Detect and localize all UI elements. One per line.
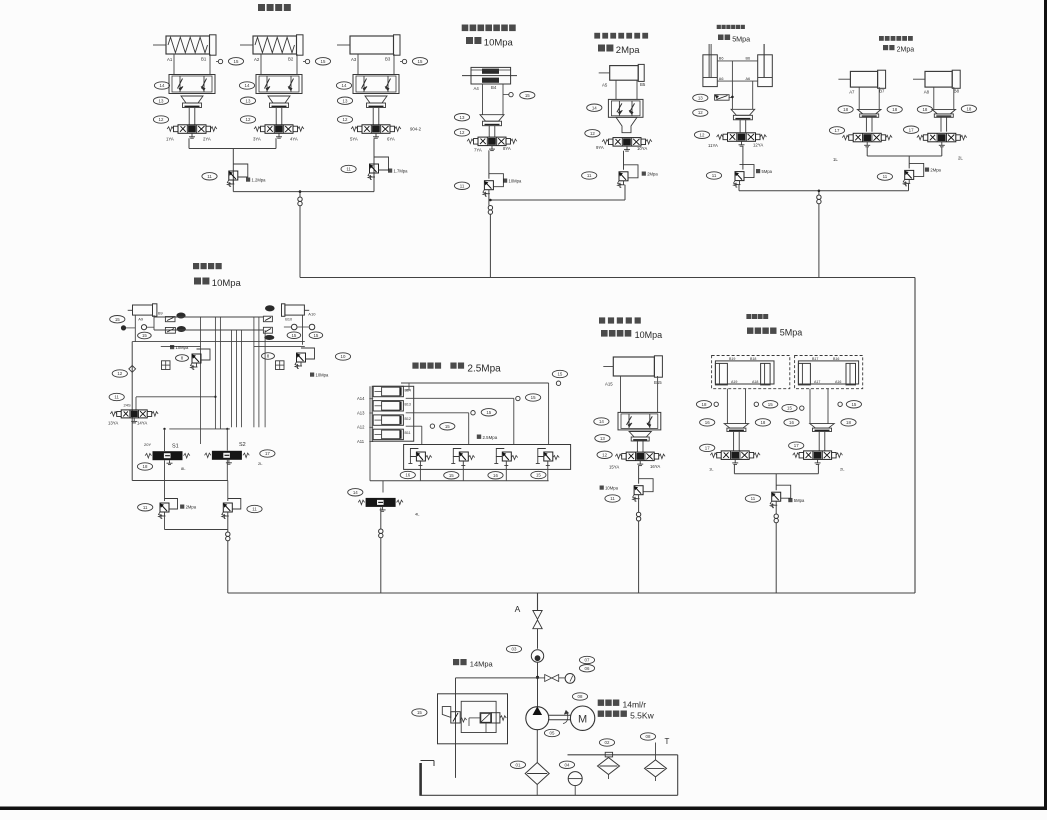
label module2 relief pressure [503, 179, 507, 183]
wire reducing valve 2 to bus [462, 466, 464, 481]
svg-text:12: 12 [159, 117, 164, 122]
balloon 11 module4 [706, 172, 721, 179]
wire S2 to bottom bus [226, 460, 228, 481]
balloon 11 at R1 [202, 173, 217, 180]
balloon point pp2 b [838, 402, 842, 406]
svg-text:11: 11 [751, 496, 756, 501]
svg-text:A19: A19 [731, 380, 737, 384]
cylinder A10 [282, 304, 285, 317]
wire A7 down [858, 87, 860, 109]
wire swing outlet link [164, 516, 166, 530]
relief valve swing bottom left 2Mpa [160, 503, 169, 512]
title platform lift cylinders [717, 25, 721, 29]
svg-text:7YA: 7YA [474, 147, 482, 152]
cylinder A14 [373, 386, 403, 396]
pilot relief right valve [480, 713, 491, 723]
wire valve1 down [188, 138, 190, 148]
balloon 15 pp1 [763, 401, 778, 408]
wire thrust bottom bus [370, 480, 549, 482]
svg-text:10Mpa: 10Mpa [605, 486, 618, 491]
wire module4 valve down [742, 146, 744, 170]
balloon 15 B13 [526, 394, 541, 401]
funnel manifold module4 [731, 109, 755, 115]
svg-text:03: 03 [512, 647, 517, 652]
balloon 11 module5 [877, 173, 892, 180]
svg-text:11: 11 [207, 174, 212, 179]
wire check valve to junction [537, 662, 539, 706]
svg-text:18: 18 [143, 464, 148, 469]
label module5 relief pressure [925, 168, 929, 172]
svg-text:2Mpa: 2Mpa [647, 172, 658, 177]
balloon 11 at R2 [341, 165, 356, 172]
wire A15 down [620, 376, 622, 412]
return header [568, 754, 678, 756]
svg-text:1.2Mpa: 1.2Mpa [252, 178, 267, 183]
svg-text:02: 02 [605, 740, 610, 745]
svg-text:2.5Mpa: 2.5Mpa [467, 364, 501, 375]
wire A10 stub a [284, 326, 292, 328]
svg-text:A9: A9 [138, 317, 144, 322]
balloon 15 pp2 b [846, 401, 861, 408]
balloon point B14 [556, 381, 560, 385]
balloon 12 module3 [585, 130, 600, 137]
wire S1 to bottom bus [164, 460, 166, 480]
wire B8 down [953, 87, 955, 109]
svg-text:A7: A7 [849, 90, 855, 95]
wire module5 drop to relief [908, 156, 910, 168]
balloon 12 module2 [454, 129, 469, 136]
relief valve R1 1.2Mpa [229, 171, 238, 180]
funnel manifold 2 [268, 96, 290, 103]
svg-text:9YA: 9YA [596, 145, 604, 150]
wire swing left edge [131, 342, 133, 481]
svg-text:1.7Mpa: 1.7Mpa [394, 169, 409, 174]
wire crossbar top module4 [717, 60, 757, 62]
svg-text:1L: 1L [833, 157, 838, 162]
svg-text:18: 18 [846, 420, 851, 425]
balloon 15 at A10 a [287, 332, 301, 339]
wire A9 vertical b [153, 315, 155, 330]
svg-text:2L: 2L [258, 461, 263, 466]
wire pp drop to relief [775, 474, 777, 491]
svg-text:16: 16 [705, 420, 710, 425]
svg-text:B16: B16 [833, 357, 839, 361]
wire down to relief valve R1 [232, 149, 234, 192]
wire 13YA feed [135, 397, 137, 410]
svg-text:A17: A17 [814, 380, 820, 384]
svg-text:3YA: 3YA [253, 137, 261, 142]
wire main pressure bus upper [300, 277, 915, 279]
balloon point circle near B3 [402, 59, 406, 63]
cylinder pipe pulling 2 [798, 361, 858, 384]
wire B15 down [657, 376, 659, 412]
balloon 03 check valve [506, 645, 521, 652]
svg-text:20Y: 20Y [144, 442, 151, 447]
svg-text:16YA: 16YA [650, 464, 660, 469]
tank left wall [419, 763, 422, 796]
svg-text:10Mpa: 10Mpa [212, 278, 242, 289]
air breather riser [655, 743, 657, 760]
svg-text:11: 11 [143, 505, 148, 510]
svg-text:B3: B3 [385, 57, 391, 62]
svg-text:13: 13 [698, 96, 703, 101]
wire platform coupling to bus [818, 204, 820, 278]
wire drop to main bus module1 [299, 191, 301, 197]
balloon point circle A9 [121, 325, 126, 330]
svg-text:8L: 8L [181, 466, 186, 471]
cylinder A5 [610, 66, 639, 81]
wire thrust left edge [369, 386, 371, 480]
svg-text:16: 16 [405, 473, 410, 478]
balloon 08 air breather [640, 733, 655, 740]
balloon 18b pp1 [755, 419, 770, 426]
balloon 18 c [917, 106, 932, 113]
suction filter [525, 763, 549, 785]
relief valve swing right 10Mpa [297, 353, 306, 362]
svg-text:A6: A6 [746, 77, 751, 81]
svg-text:15: 15 [557, 372, 562, 377]
balloon 11 module3 [582, 172, 597, 179]
cylinder A9 [133, 305, 153, 315]
balloon point circle near B2 [305, 59, 309, 63]
svg-text:12: 12 [698, 110, 703, 115]
wire module5 joining bus [867, 155, 942, 157]
svg-text:15: 15 [787, 406, 792, 411]
wire junction to gauge valve [538, 677, 545, 679]
wire reducing valve 1 to bus [419, 466, 421, 481]
wire stem module2 [488, 126, 490, 137]
pump shaft [548, 714, 571, 716]
svg-text:15: 15 [417, 710, 422, 715]
svg-text:2Mpa: 2Mpa [930, 168, 941, 173]
svg-text:18: 18 [892, 107, 897, 112]
wire thrust valve down [380, 508, 382, 530]
svg-text:15: 15 [115, 317, 120, 322]
label rear support relief pressure [600, 486, 604, 490]
return filter [598, 758, 620, 775]
reducing valve thrust 1 [416, 452, 425, 461]
cylinder A4 double rod [471, 67, 511, 84]
wire shutoff to check valve [537, 629, 539, 649]
svg-text:15: 15 [768, 402, 773, 407]
wire stem A8 [940, 117, 942, 131]
balloon at A9-1 [176, 313, 185, 319]
solenoid valve 7YA/8YA [478, 137, 506, 146]
pilot square swing right [276, 361, 285, 370]
svg-text:18: 18 [966, 106, 971, 111]
svg-text:17: 17 [909, 127, 914, 132]
svg-text:2L: 2L [958, 156, 963, 161]
wire B7 down [878, 87, 880, 109]
check valve pair module3 [608, 99, 643, 117]
balloon 18 pp1 [696, 401, 711, 408]
svg-text:12: 12 [460, 130, 465, 135]
svg-text:A: A [515, 604, 521, 614]
wire B11 run [406, 425, 422, 427]
svg-text:07: 07 [585, 658, 590, 663]
balloon point B11 [430, 424, 434, 428]
title rear support working pressure 10Mpa [601, 330, 608, 337]
balloon point circle near B1 [218, 59, 222, 63]
svg-text:10Mpa: 10Mpa [509, 179, 522, 184]
wire module3 valve down [623, 151, 625, 170]
wire A9 stub [126, 327, 135, 329]
quick coupling swing [226, 532, 230, 536]
svg-text:14Mpa: 14Mpa [470, 660, 494, 669]
wire rear support valve down [638, 465, 640, 483]
funnel manifold A8 [932, 109, 956, 114]
svg-text:17: 17 [794, 443, 799, 448]
wire swing to lower bus [227, 541, 229, 593]
svg-text:8YA: 8YA [503, 146, 511, 151]
svg-text:A12: A12 [357, 425, 365, 430]
check valve square A10-2 [263, 327, 272, 333]
svg-text:A6: A6 [719, 77, 724, 81]
pump suction line [536, 730, 538, 762]
svg-text:13: 13 [159, 98, 164, 103]
wire swing drop [227, 516, 229, 532]
balloon 11 module2 [454, 182, 469, 189]
svg-text:15YA: 15YA [609, 465, 619, 470]
wire module4 relief outlet [738, 185, 740, 191]
wire valve A8 down [941, 147, 943, 156]
wire stem 1 [188, 108, 190, 125]
svg-text:13: 13 [460, 115, 465, 120]
svg-text:15: 15 [234, 59, 239, 64]
balloon 15b at A9 [138, 332, 152, 339]
balloon 16 thrust a [400, 471, 415, 478]
cylinder A6 left vertical [703, 55, 717, 87]
label swing relief left pressure [170, 345, 174, 349]
wire A9 stub2 [147, 326, 154, 328]
title furnace cover cylinders [258, 4, 265, 11]
node diamond on left edge [129, 366, 136, 373]
pipe pulling dashed box 2 [795, 356, 863, 389]
wire A4 down [482, 84, 484, 115]
valve S1 [153, 451, 183, 460]
cylinder A7 [850, 71, 877, 87]
wire platform drop to main bus [818, 191, 820, 195]
svg-text:B17: B17 [812, 357, 818, 361]
svg-text:15: 15 [418, 59, 423, 64]
relief valve module2 10Mpa [484, 181, 493, 190]
svg-text:14: 14 [160, 83, 165, 88]
quick coupling thrust [379, 529, 383, 533]
balloon 15 B14 [552, 370, 567, 377]
wire B2 to check block [296, 54, 298, 75]
svg-text:A13: A13 [357, 410, 365, 415]
svg-text:11: 11 [346, 167, 351, 172]
svg-text:13YA: 13YA [108, 421, 118, 426]
svg-text:B1: B1 [201, 57, 207, 62]
svg-text:2Mpa: 2Mpa [186, 505, 197, 510]
title clamp moving pressure 2Mpa [598, 45, 605, 52]
solenoid valve 11YA/12YA [728, 133, 756, 142]
balloon 04 level gauge [559, 761, 574, 768]
svg-text:A18: A18 [752, 380, 758, 384]
pilot check block rear support [618, 412, 661, 430]
svg-text:18: 18 [843, 107, 848, 112]
svg-text:11: 11 [114, 395, 119, 400]
balloon point circle 9 A9 [141, 325, 146, 330]
cylinder pipe pulling 1 [715, 361, 774, 384]
thrust valve box [404, 445, 571, 470]
cylinder A6 right vertical [758, 55, 773, 87]
title thrust cylinders pressure 2.5Mpa [412, 363, 418, 369]
solenoid valve pp1 [721, 451, 749, 460]
reducing valve thrust 2 [459, 452, 468, 461]
svg-text:5Mpa: 5Mpa [762, 169, 773, 174]
cylinder end gland right 2 [846, 363, 856, 385]
solenoid valve 5YA/6YA [362, 125, 390, 134]
label system pressure 14Mpa [453, 659, 459, 665]
svg-text:A15: A15 [605, 382, 613, 387]
funnel manifold 3 [365, 96, 387, 103]
balloon 8 swing relief left [176, 355, 189, 362]
svg-text:B19: B19 [729, 357, 735, 361]
balloon 08 motor [572, 693, 587, 700]
svg-text:B8: B8 [954, 89, 960, 94]
wire pilot block drop [455, 678, 457, 778]
solenoid valve 9YA/10YA [613, 138, 641, 147]
wire stem pp1 [733, 432, 735, 451]
balloon point pp1 b [754, 402, 758, 406]
svg-text:B18: B18 [750, 357, 756, 361]
svg-text:1YA: 1YA [166, 137, 174, 142]
balloon 17 a [829, 127, 844, 134]
relief valve R2 1.7Mpa [370, 164, 379, 173]
balloon 14 module1-3 [336, 82, 351, 89]
svg-text:14ml/r: 14ml/r [623, 700, 647, 710]
wire B3 stub to balloon [400, 61, 403, 63]
balloon 02 return filter [599, 739, 614, 746]
svg-text:11: 11 [587, 173, 592, 178]
svg-text:08: 08 [646, 734, 651, 739]
svg-text:15: 15 [486, 410, 491, 415]
balloon 12 module4 upper [693, 109, 708, 116]
svg-text:2Mpa: 2Mpa [616, 45, 640, 56]
quick coupling platform [817, 195, 821, 199]
svg-text:A14: A14 [357, 396, 365, 401]
svg-text:B12: B12 [405, 417, 411, 421]
label module4 relief pressure [756, 169, 760, 173]
svg-text:14: 14 [353, 490, 358, 495]
svg-text:S2: S2 [239, 442, 246, 448]
wire A2 to check block [260, 54, 262, 75]
balloon 18 d [961, 105, 976, 112]
balloon 12 module1-2 [240, 116, 255, 123]
cylinder A11 [373, 429, 403, 439]
svg-text:A8: A8 [924, 90, 930, 95]
wire to gauge [559, 677, 565, 679]
svg-text:15: 15 [851, 402, 856, 407]
label swing bottom relief pressure [180, 505, 184, 509]
relief valve rear support 10Mpa [634, 486, 643, 495]
wire B1 stub to balloon [216, 61, 219, 63]
title clamp clamping cylinder [462, 25, 469, 32]
wire A5 down [615, 80, 617, 99]
svg-text:13: 13 [343, 98, 348, 103]
wire pipe pulling 1 down a [726, 389, 728, 424]
svg-text:10: 10 [341, 354, 346, 359]
quick coupling pipe pulling [774, 514, 778, 518]
balloon 07 [579, 656, 594, 663]
svg-text:12YA: 12YA [753, 142, 763, 147]
balloon 16 thrust c [488, 472, 503, 479]
balloon 13 module1-2 [240, 97, 255, 104]
pressure gauge [565, 674, 575, 684]
pilot check valve block 3 [353, 75, 399, 94]
balloon 13 module1-1 [153, 97, 168, 104]
balloon 15 near B2 [315, 58, 330, 65]
svg-text:17: 17 [705, 446, 710, 451]
wire pp joining bus [734, 473, 818, 475]
wire B2 stub to balloon [303, 61, 306, 63]
reducing valve thrust 4 [544, 452, 553, 461]
wire valve3 down to relief R2 [373, 138, 375, 191]
label motor power 5.5Kw [598, 711, 604, 717]
wire coupling to main bus [299, 206, 301, 278]
wire valve2 down [275, 138, 277, 148]
wire pump riser [537, 593, 539, 610]
electric motor [570, 706, 594, 730]
wire link platform groups [739, 190, 909, 192]
funnel manifold 1 [181, 96, 203, 103]
svg-text:12: 12 [602, 452, 607, 457]
svg-text:15: 15 [291, 333, 296, 338]
wire S1 feed down [164, 429, 166, 451]
svg-text:A5: A5 [602, 83, 608, 88]
balloon 15 module2 [520, 92, 535, 99]
balloon 15 pilot relief block [412, 709, 427, 716]
svg-text:S1: S1 [172, 444, 179, 450]
svg-text:B15: B15 [654, 380, 662, 385]
check valve square A9-2 [165, 328, 175, 334]
balloon 18 a [838, 106, 853, 113]
title platform lift pressure 5Mpa [718, 35, 724, 41]
quick coupling rear support [636, 512, 640, 516]
svg-text:15: 15 [531, 395, 536, 400]
svg-text:12: 12 [700, 132, 705, 137]
wire module2 relief outlet [488, 194, 490, 206]
svg-text:1L: 1L [709, 467, 714, 472]
svg-text:11: 11 [252, 507, 257, 512]
svg-text:17: 17 [265, 451, 270, 456]
relief valve swing left 10Mpa [192, 354, 201, 363]
label pump displacement 14ml/r [598, 700, 604, 706]
wire swing bottom bus [132, 480, 228, 482]
balloon 15 B12 [481, 409, 496, 416]
balloon point B13 [516, 396, 520, 400]
cylinder A1 [166, 36, 210, 54]
svg-text:10Mpa: 10Mpa [484, 38, 514, 49]
wire B3 to check block [393, 54, 395, 75]
wire main pressure bus lower [228, 592, 915, 594]
svg-text:15: 15 [536, 473, 541, 478]
svg-text:2Mpa: 2Mpa [897, 47, 915, 54]
junction dots swing net [214, 396, 216, 398]
wire stem 2 [275, 108, 277, 125]
svg-text:A1: A1 [167, 57, 173, 62]
svg-text:B7: B7 [879, 89, 885, 94]
balloon 17 pp2 [789, 442, 804, 449]
balloon 8b swing relief right [262, 353, 275, 360]
balloon 13 module2 [454, 114, 469, 121]
wire stem pp2 [818, 432, 820, 451]
funnel pipe pulling 1 [724, 424, 748, 429]
wire B4 stub balloon [503, 94, 509, 96]
balloon 12 module4 lower [694, 131, 709, 138]
